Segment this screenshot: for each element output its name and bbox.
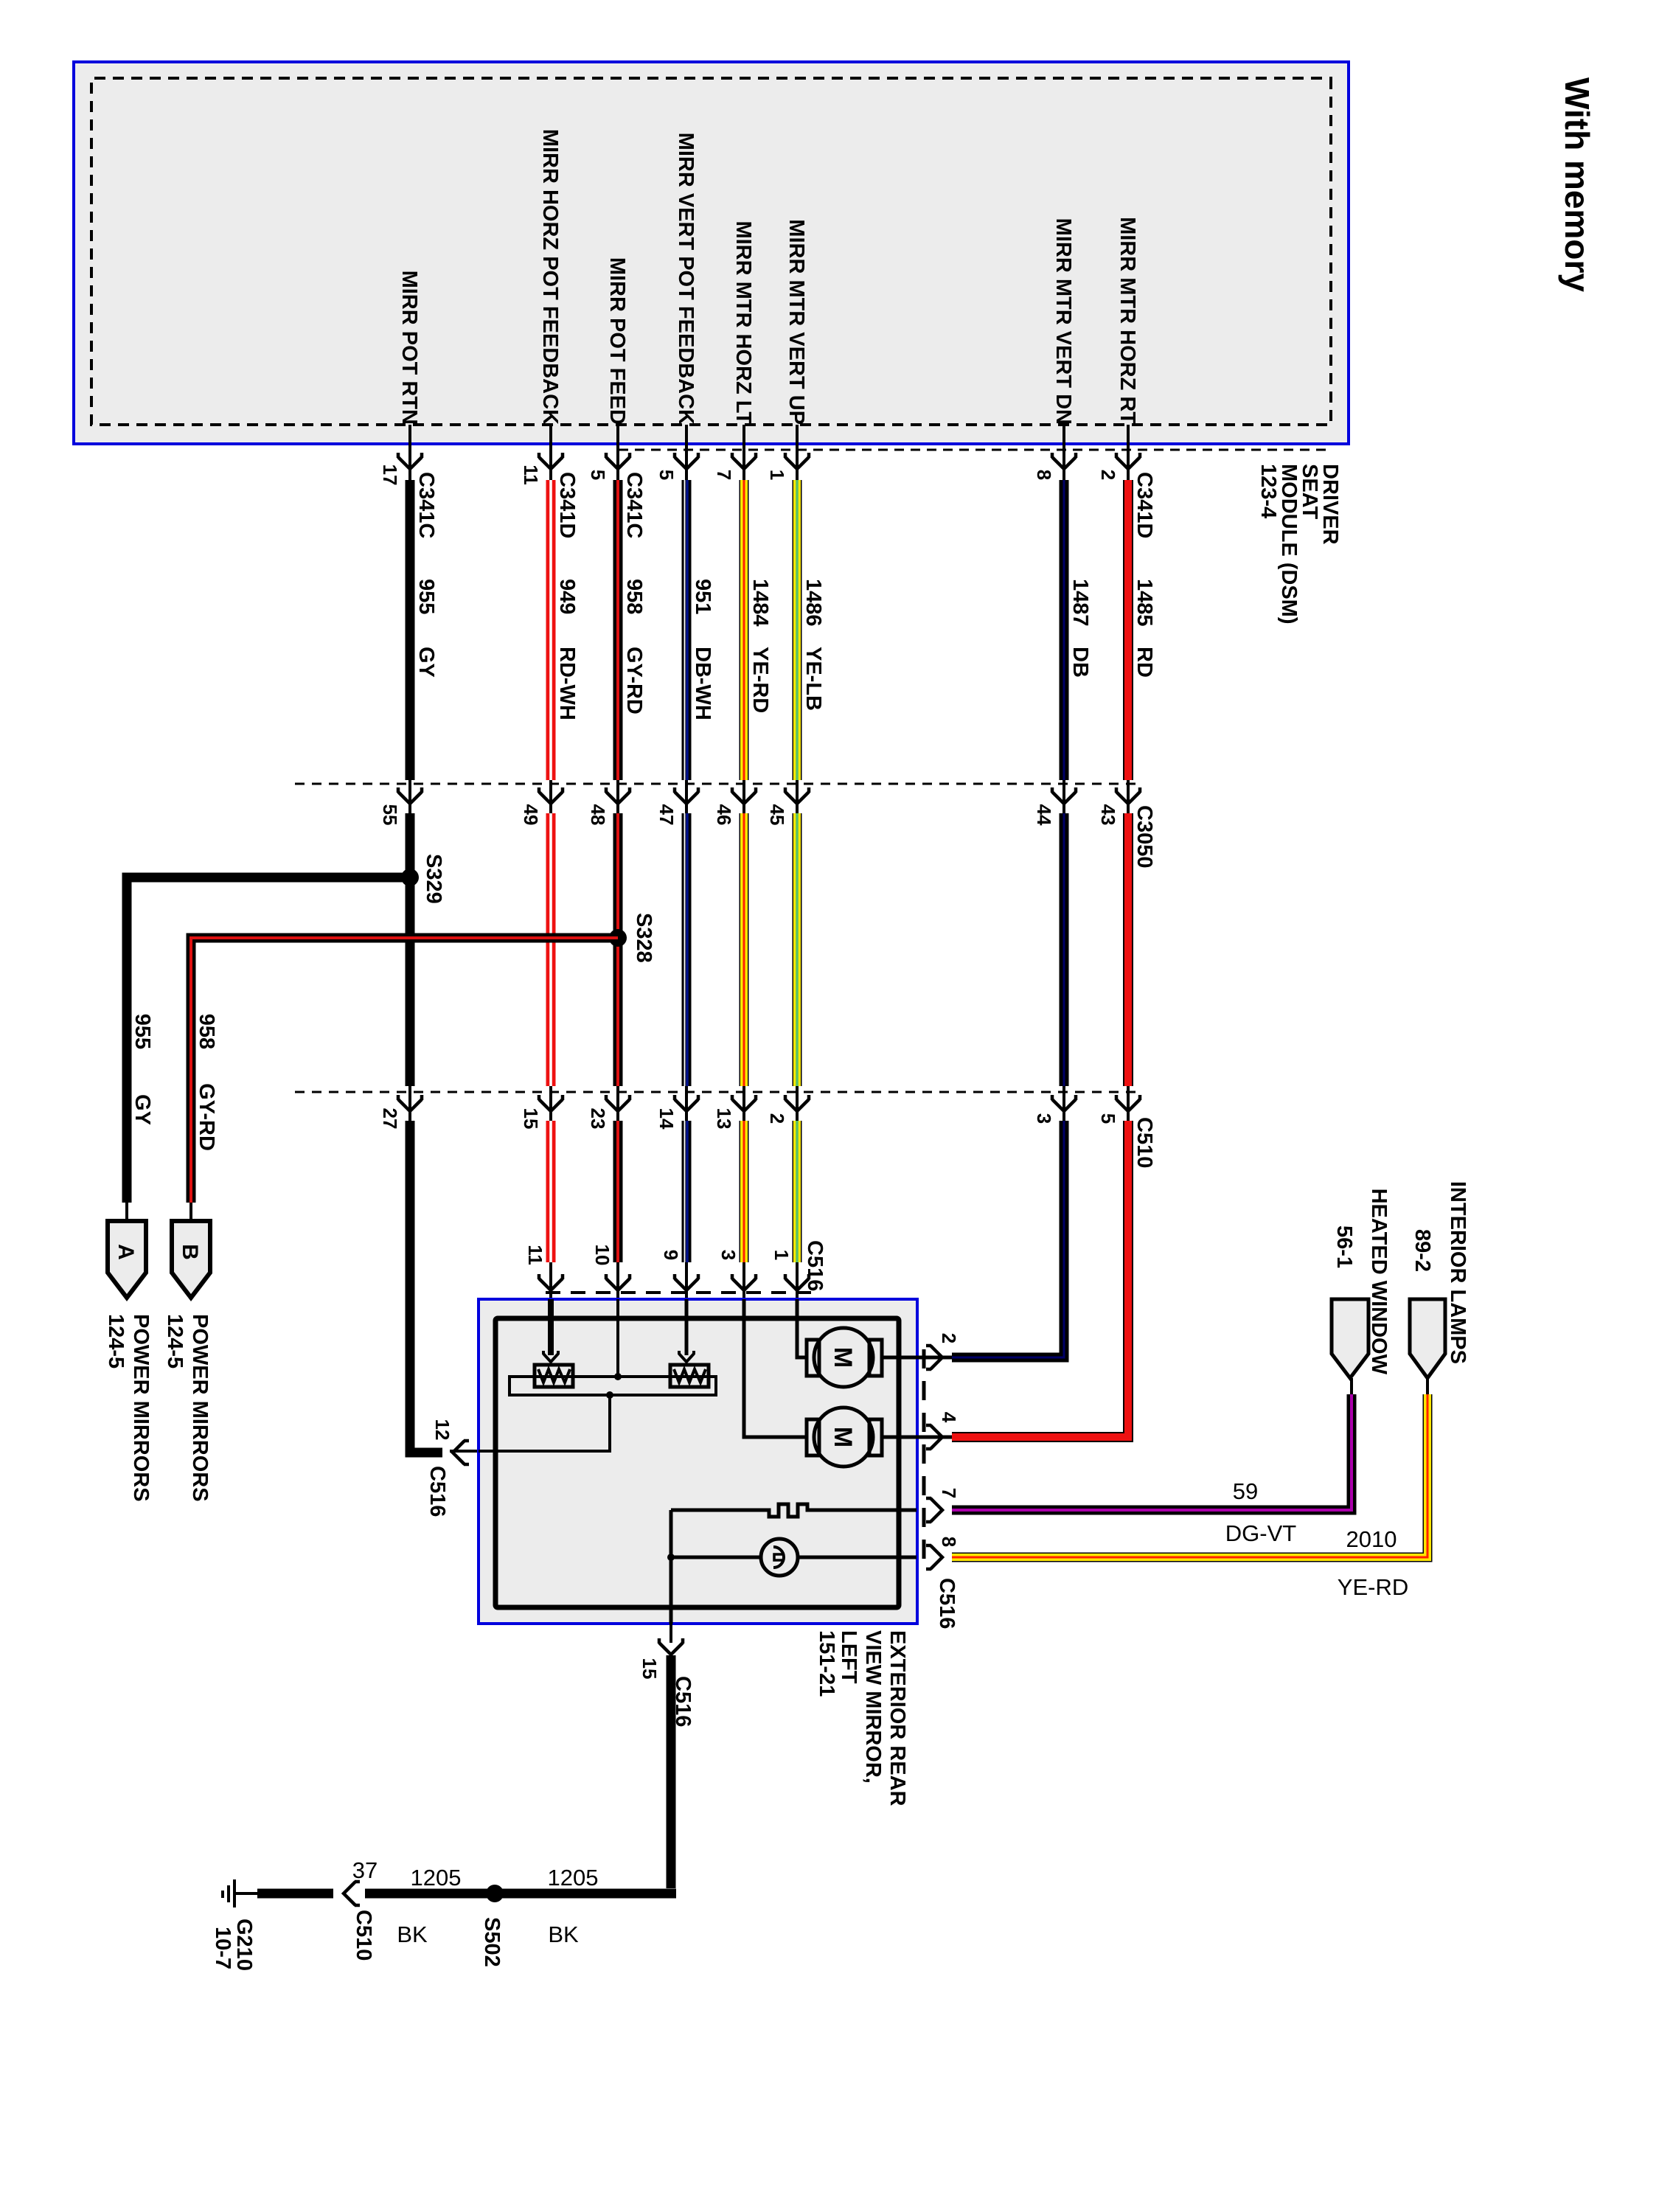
wire 951 DB-WH continuation to C516 pin 9 xyxy=(660,1121,698,1299)
svg-text:3: 3 xyxy=(717,1250,740,1260)
svg-text:10-7: 10-7 xyxy=(211,1927,234,1969)
wire 951 DB-WH (MIRR VERT POT FEEDBACK) xyxy=(655,133,714,1130)
wire BK from C510 to ground G210 xyxy=(257,1889,333,1899)
wire 958 GY-RD (MIRR POT FEED) xyxy=(587,257,646,1130)
svg-text:958: 958 xyxy=(195,1014,218,1049)
svg-text:55: 55 xyxy=(379,804,401,826)
wire 1485 RD continuation to mirror pin 4 xyxy=(952,1121,1128,1437)
heater/thermistor common line to C516 pin 15 xyxy=(639,1510,695,1727)
svg-text:949: 949 xyxy=(555,579,579,614)
wire GY-RD inside to pot wiper rail xyxy=(614,1299,622,1380)
svg-text:C516: C516 xyxy=(935,1578,959,1629)
wire 958 GY-RD continuation to C516 pin 10 xyxy=(591,1121,630,1299)
svg-text:A: A xyxy=(114,1244,138,1260)
svg-text:10: 10 xyxy=(591,1245,613,1266)
svg-text:RD-WH: RD-WH xyxy=(555,647,579,720)
svg-text:VIEW MIRROR,: VIEW MIRROR, xyxy=(861,1630,885,1784)
wire 1484 YE-RD (MIRR MTR HORZ LT) xyxy=(713,220,772,1129)
svg-text:7: 7 xyxy=(938,1488,960,1498)
svg-text:POWER MIRRORS: POWER MIRRORS xyxy=(129,1314,153,1502)
connector C341 dashed line xyxy=(619,449,1326,451)
svg-text:1: 1 xyxy=(766,470,788,480)
svg-text:1485: 1485 xyxy=(1133,579,1156,627)
svg-text:S328: S328 xyxy=(632,913,655,963)
svg-text:151-21: 151-21 xyxy=(815,1630,838,1697)
svg-text:LEFT: LEFT xyxy=(837,1630,860,1684)
wire 949 RD-WH continuation to C516 pin 11 xyxy=(524,1121,563,1299)
svg-text:S329: S329 xyxy=(422,854,445,904)
svg-text:BK: BK xyxy=(548,1921,579,1947)
module DSM dashed border xyxy=(91,78,1331,425)
svg-text:GY: GY xyxy=(131,1094,154,1125)
svg-text:44: 44 xyxy=(1033,804,1055,826)
svg-text:23: 23 xyxy=(587,1108,609,1130)
wire 1205 BK from mirror pin 15 to S502 xyxy=(365,1655,676,1947)
svg-text:1484: 1484 xyxy=(748,579,772,627)
potentiometer P1 (horizontal) xyxy=(535,1365,573,1387)
mirror pin labels 2 4 7 8 xyxy=(935,1333,960,1630)
motor M2 (mirror horizontal) xyxy=(807,1408,952,1467)
wire 958 GY-RD branch to connector B xyxy=(191,938,618,1222)
module label DRIVER SEAT MODULE (DSM) 123-4 xyxy=(1256,464,1342,624)
svg-text:955: 955 xyxy=(414,579,438,614)
svg-text:5: 5 xyxy=(655,470,678,480)
wire 955 GY continuation to C516 pin 12 xyxy=(410,1121,479,1517)
svg-text:49: 49 xyxy=(520,804,542,826)
connector B (POWER MIRRORS) xyxy=(163,1221,212,1502)
wire 1205 BK from S502 to C510 xyxy=(397,1865,461,1947)
svg-text:BK: BK xyxy=(397,1921,428,1947)
svg-text:9: 9 xyxy=(660,1250,682,1260)
svg-text:MIRR MTR HORZ RT: MIRR MTR HORZ RT xyxy=(1116,217,1139,425)
wire YE-LB inside to motor M1 xyxy=(797,1299,807,1357)
wire 955 GY (MIRR POT RTN) xyxy=(379,271,438,1130)
connector C510 pin 37 (ground chain) xyxy=(344,1857,378,1961)
svg-text:124-5: 124-5 xyxy=(104,1314,128,1368)
splice S328 xyxy=(609,913,655,963)
wire 1486 YE-LB (MIRR MTR VERT UP) xyxy=(766,219,825,1124)
svg-text:8: 8 xyxy=(1033,470,1055,480)
svg-text:C516: C516 xyxy=(803,1240,827,1291)
splice S329 xyxy=(401,854,445,904)
svg-text:YE-RD: YE-RD xyxy=(748,647,772,713)
svg-text:43: 43 xyxy=(1097,804,1119,826)
wire 1487 DB continuation to mirror pin 2 xyxy=(952,1121,1064,1357)
svg-text:46: 46 xyxy=(713,804,735,826)
mirror box label xyxy=(815,1630,909,1806)
svg-text:INTERIOR LAMPS: INTERIOR LAMPS xyxy=(1446,1181,1470,1364)
svg-text:DB: DB xyxy=(1068,647,1092,678)
svg-text:2: 2 xyxy=(766,1113,788,1124)
svg-text:YE-LB: YE-LB xyxy=(801,647,825,711)
svg-text:C510: C510 xyxy=(1133,1117,1156,1168)
wire 1485 RD (MIRR MTR HORZ RT) xyxy=(1097,217,1156,1124)
svg-text:MIRR MTR VERT UP: MIRR MTR VERT UP xyxy=(785,219,808,425)
svg-text:DG-VT: DG-VT xyxy=(1225,1520,1297,1546)
wire 955 GY branch to connector A xyxy=(127,877,410,1222)
svg-text:B: B xyxy=(178,1244,202,1260)
wire 1486 YE-LB continuation to C516 pin 1 xyxy=(771,1121,809,1299)
svg-text:C341D: C341D xyxy=(555,472,579,538)
svg-text:2: 2 xyxy=(938,1333,960,1343)
svg-text:958: 958 xyxy=(622,579,646,614)
svg-text:123-4: 123-4 xyxy=(1256,464,1280,518)
connector C3050 dashed line xyxy=(295,783,1135,785)
svg-text:C341C: C341C xyxy=(622,472,646,538)
svg-text:1486: 1486 xyxy=(801,579,825,627)
svg-text:124-5: 124-5 xyxy=(163,1314,187,1368)
svg-text:G210: G210 xyxy=(232,1919,256,1971)
svg-text:C341C: C341C xyxy=(414,472,438,538)
potentiometer rail bar xyxy=(509,1377,716,1395)
svg-text:1205: 1205 xyxy=(411,1865,462,1891)
svg-text:C510: C510 xyxy=(352,1910,375,1961)
svg-text:45: 45 xyxy=(766,804,788,826)
mirror box (blue) EXTERIOR REAR VIEW MIRROR LEFT xyxy=(479,1299,917,1624)
wire 2010 YE-RD to mirror pin 8 xyxy=(952,1378,1427,1600)
svg-text:GY-RD: GY-RD xyxy=(622,647,646,714)
svg-text:RD: RD xyxy=(1133,647,1156,678)
svg-text:With memory: With memory xyxy=(1558,77,1596,292)
svg-text:GY: GY xyxy=(414,647,438,678)
connector C516 dashed line (mirror top) xyxy=(922,1349,926,1565)
heater element line (pin 7) xyxy=(671,1498,942,1522)
potentiometer P2 (vertical) xyxy=(670,1365,709,1387)
svg-text:12: 12 xyxy=(431,1419,453,1441)
svg-text:POWER MIRRORS: POWER MIRRORS xyxy=(188,1314,212,1502)
svg-text:11: 11 xyxy=(524,1245,546,1265)
connector INTERIOR LAMPS 89-2 xyxy=(1410,1181,1470,1378)
svg-text:15: 15 xyxy=(639,1658,661,1680)
svg-text:MIRR MTR HORZ LT: MIRR MTR HORZ LT xyxy=(731,220,755,425)
svg-text:48: 48 xyxy=(587,804,609,826)
svg-text:89-2: 89-2 xyxy=(1411,1229,1434,1272)
thermistor line (pin 8) xyxy=(667,1539,942,1576)
svg-text:59: 59 xyxy=(1233,1478,1258,1504)
svg-text:4: 4 xyxy=(938,1412,960,1423)
wire 1484 YE-RD continuation to C516 pin 3 xyxy=(717,1121,756,1299)
svg-text:1: 1 xyxy=(771,1250,793,1260)
svg-text:YE-RD: YE-RD xyxy=(1338,1574,1408,1600)
svg-text:5: 5 xyxy=(587,470,609,480)
wire 59 DG-VT to mirror pin 7 xyxy=(952,1378,1352,1546)
connector A (POWER MIRRORS) xyxy=(104,1221,153,1502)
svg-text:MIRR MTR VERT DN: MIRR MTR VERT DN xyxy=(1051,218,1075,425)
splice S502 xyxy=(480,1885,504,1967)
wire 1487 DB (MIRR MTR VERT DN) xyxy=(1033,218,1092,1124)
svg-text:S502: S502 xyxy=(480,1917,504,1967)
svg-text:GY-RD: GY-RD xyxy=(195,1083,218,1151)
svg-text:2: 2 xyxy=(1097,470,1119,480)
svg-text:2010: 2010 xyxy=(1346,1526,1397,1552)
svg-text:955: 955 xyxy=(131,1014,154,1049)
svg-text:3: 3 xyxy=(1033,1113,1055,1124)
module DSM box (blue) xyxy=(74,62,1349,444)
svg-text:DB-WH: DB-WH xyxy=(691,647,714,720)
svg-text:C516: C516 xyxy=(425,1466,449,1517)
svg-text:951: 951 xyxy=(691,579,714,614)
wire 949 RD-WH (MIRR HORZ POT FEEDBACK) xyxy=(520,129,579,1130)
svg-text:27: 27 xyxy=(379,1108,401,1130)
connector HEATED WINDOW 56-1 xyxy=(1332,1189,1391,1378)
pot wiper output line to C516 pin 12 xyxy=(479,1391,613,1451)
wire RD-WH inside to pot P1 xyxy=(543,1299,558,1362)
motor M1 (mirror vertical) xyxy=(807,1328,952,1387)
svg-text:14: 14 xyxy=(655,1108,678,1130)
svg-text:HEATED WINDOW: HEATED WINDOW xyxy=(1367,1189,1391,1375)
svg-text:8: 8 xyxy=(938,1537,960,1547)
svg-text:M: M xyxy=(829,1427,857,1447)
wire YE-RD inside to motor M2 xyxy=(744,1299,807,1437)
svg-text:13: 13 xyxy=(713,1108,735,1130)
svg-text:17: 17 xyxy=(379,465,401,486)
svg-text:7: 7 xyxy=(713,470,735,480)
svg-text:MIRR POT RTN: MIRR POT RTN xyxy=(397,271,421,425)
svg-text:15: 15 xyxy=(520,1108,542,1130)
svg-text:MIRR HORZ POT FEEDBACK: MIRR HORZ POT FEEDBACK xyxy=(538,129,562,425)
svg-text:37: 37 xyxy=(352,1857,378,1883)
svg-text:MIRR POT FEED: MIRR POT FEED xyxy=(605,257,629,425)
wire DB-WH inside to pot P2 xyxy=(679,1299,694,1362)
mirror box inner border xyxy=(495,1318,899,1607)
connector C510 dashed line xyxy=(295,1091,1135,1093)
svg-text:C341D: C341D xyxy=(1133,472,1156,538)
svg-text:C3050: C3050 xyxy=(1133,805,1156,868)
svg-text:MIRR VERT POT FEEDBACK: MIRR VERT POT FEEDBACK xyxy=(674,133,698,425)
connector C516 dashed line (mirror left) xyxy=(544,1291,811,1294)
svg-text:56-1: 56-1 xyxy=(1332,1225,1356,1268)
svg-text:M: M xyxy=(829,1347,857,1368)
svg-text:11: 11 xyxy=(520,465,542,485)
svg-text:EXTERIOR REAR: EXTERIOR REAR xyxy=(886,1630,909,1806)
ground G210 10-7 xyxy=(211,1879,257,1971)
svg-text:5: 5 xyxy=(1097,1113,1119,1124)
svg-text:47: 47 xyxy=(655,804,678,826)
svg-text:1487: 1487 xyxy=(1068,579,1092,627)
svg-text:1205: 1205 xyxy=(548,1865,599,1891)
